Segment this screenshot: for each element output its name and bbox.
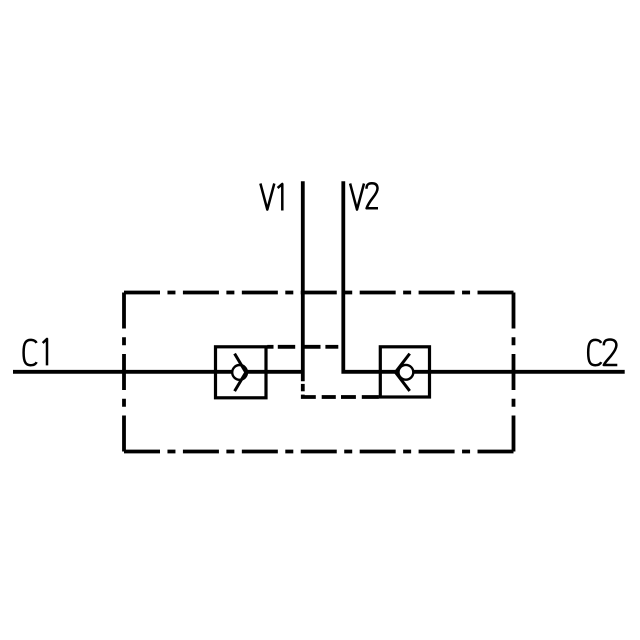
- pilot line dash 3: [304, 345, 320, 349]
- pilot line dash 2: [278, 345, 295, 349]
- enclosure boundary, right edge: [512, 293, 516, 452]
- wire: port C1 line to check valve CV1 and node under V1: [13, 370, 305, 374]
- pilot line corner dash: [303, 395, 316, 397]
- check valve CV2 ball: [399, 365, 414, 380]
- enclosure boundary (dash-dot valve body outline), top edge: [124, 291, 514, 295]
- check valve CV1 seat: [235, 354, 246, 392]
- label V2: [350, 183, 378, 209]
- pilot line dash 5: [322, 395, 336, 399]
- pilot line dash 7: [362, 395, 379, 399]
- enclosure boundary, left edge: [122, 293, 126, 452]
- wire: port V2 vertical line turning to check valve CV2 and port C2: [343, 181, 624, 371]
- check valve CV2 seat: [395, 354, 409, 391]
- check valve CV1 box: [216, 347, 267, 398]
- label C2: [588, 340, 617, 366]
- pilot line (dashed) from V2 to check valve CV1, dash 1: [267, 345, 273, 349]
- pilot line (dashed) from V1 to check valve CV2, vertical dash: [301, 384, 305, 391]
- pilot line dash 4: [325, 345, 338, 349]
- wire: port V1 vertical line: [301, 181, 305, 381]
- pilot line dash 6: [341, 395, 356, 399]
- check valve CV2 box: [380, 347, 429, 397]
- enclosure boundary, bottom edge: [124, 450, 514, 454]
- label C1: [24, 339, 47, 366]
- check valve CV1 ball: [232, 365, 247, 380]
- label V1: [260, 184, 282, 211]
